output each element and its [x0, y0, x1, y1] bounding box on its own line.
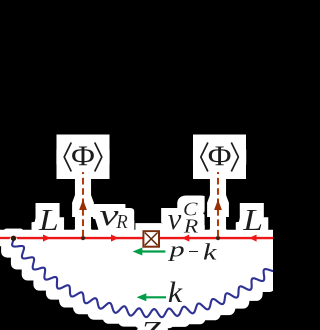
boson Z wavy propagator: [12, 240, 276, 317]
dashed Higgs VEV line right: [217, 167, 219, 237]
svg-text:R: R: [115, 211, 128, 233]
svg-text:p: p: [167, 237, 185, 262]
X cross in box: [145, 233, 158, 246]
arrow on left L segment: [43, 234, 51, 241]
momentum arrow k (green): [145, 296, 166, 298]
node right Higgs vertex: [216, 236, 220, 240]
label Phi-vev left: [64, 142, 103, 173]
arrowhead on left dashed line: [79, 199, 87, 210]
svg-text:Φ: Φ: [208, 140, 232, 172]
svg-text:C: C: [183, 199, 199, 220]
svg-text:ν: ν: [168, 201, 182, 236]
svg-text:k: k: [203, 240, 217, 265]
Majorana mass insertion box: [143, 231, 159, 247]
svg-text:Φ: Φ: [71, 140, 95, 172]
dashed Higgs VEV line left: [82, 167, 84, 237]
node left vertex: [11, 236, 16, 241]
loop interior (white): [12, 238, 276, 317]
svg-text:L: L: [38, 203, 59, 237]
svg-text:k: k: [168, 277, 183, 309]
label Phi-vev right: [200, 142, 239, 173]
arrowhead on right dashed line: [214, 199, 222, 210]
arrow on nu_R^C segment: [182, 234, 190, 241]
svg-text:−: −: [188, 241, 199, 263]
boson Z wavy propagator halo band: [12, 240, 276, 317]
wire fermion line: [0, 237, 273, 240]
momentum arrow p-k (green): [141, 250, 165, 252]
arrow on nu_R segment: [111, 234, 119, 241]
svg-text:Z: Z: [141, 316, 162, 330]
node left Higgs vertex: [81, 236, 85, 240]
arrow on right L segment: [249, 234, 257, 241]
svg-text:L: L: [242, 203, 263, 237]
